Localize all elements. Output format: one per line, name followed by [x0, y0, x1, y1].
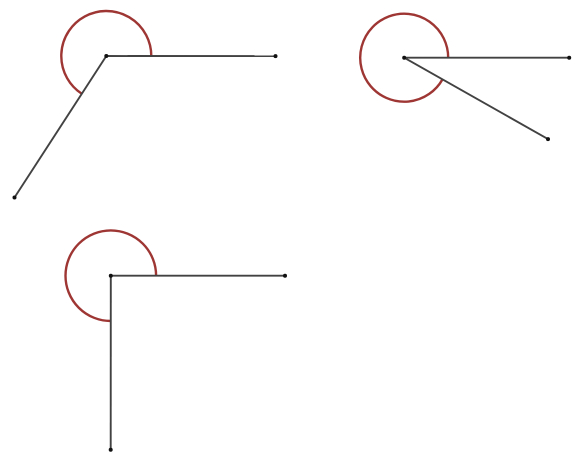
node: right endpoint of figure 2	[567, 56, 571, 60]
node: right endpoint of figure 1	[274, 54, 278, 58]
wire: ray 3b from vertex to bottom endpoint	[110, 276, 112, 450]
node: lower-right endpoint of figure 2	[546, 137, 550, 141]
wire: ray 2a from vertex to right endpoint	[404, 57, 569, 59]
node: vertex point of figure 1	[104, 54, 108, 58]
node: lower-left endpoint of figure 1	[13, 196, 17, 200]
wire: ray 1b from vertex to lower-left endpoint	[15, 56, 107, 198]
node: vertex point of figure 2	[402, 56, 406, 60]
wire: ray 2b from vertex to lower-right endpoint	[404, 58, 548, 139]
wire: ray 3a from vertex to right endpoint	[111, 275, 285, 277]
angle arc 1 (reflex ~237deg, top-left figure)	[61, 11, 151, 94]
node: right endpoint of figure 3	[283, 274, 287, 278]
angle arc 2 (reflex ~330deg, top-right figure)	[360, 14, 448, 102]
angle arc 3 (reflex 270deg, bottom-left figure)	[66, 230, 157, 321]
node: bottom endpoint of figure 3	[109, 448, 113, 452]
node: vertex point of figure 3	[109, 274, 113, 278]
wire: ray 1a from vertex to right endpoint	[106, 55, 275, 57]
